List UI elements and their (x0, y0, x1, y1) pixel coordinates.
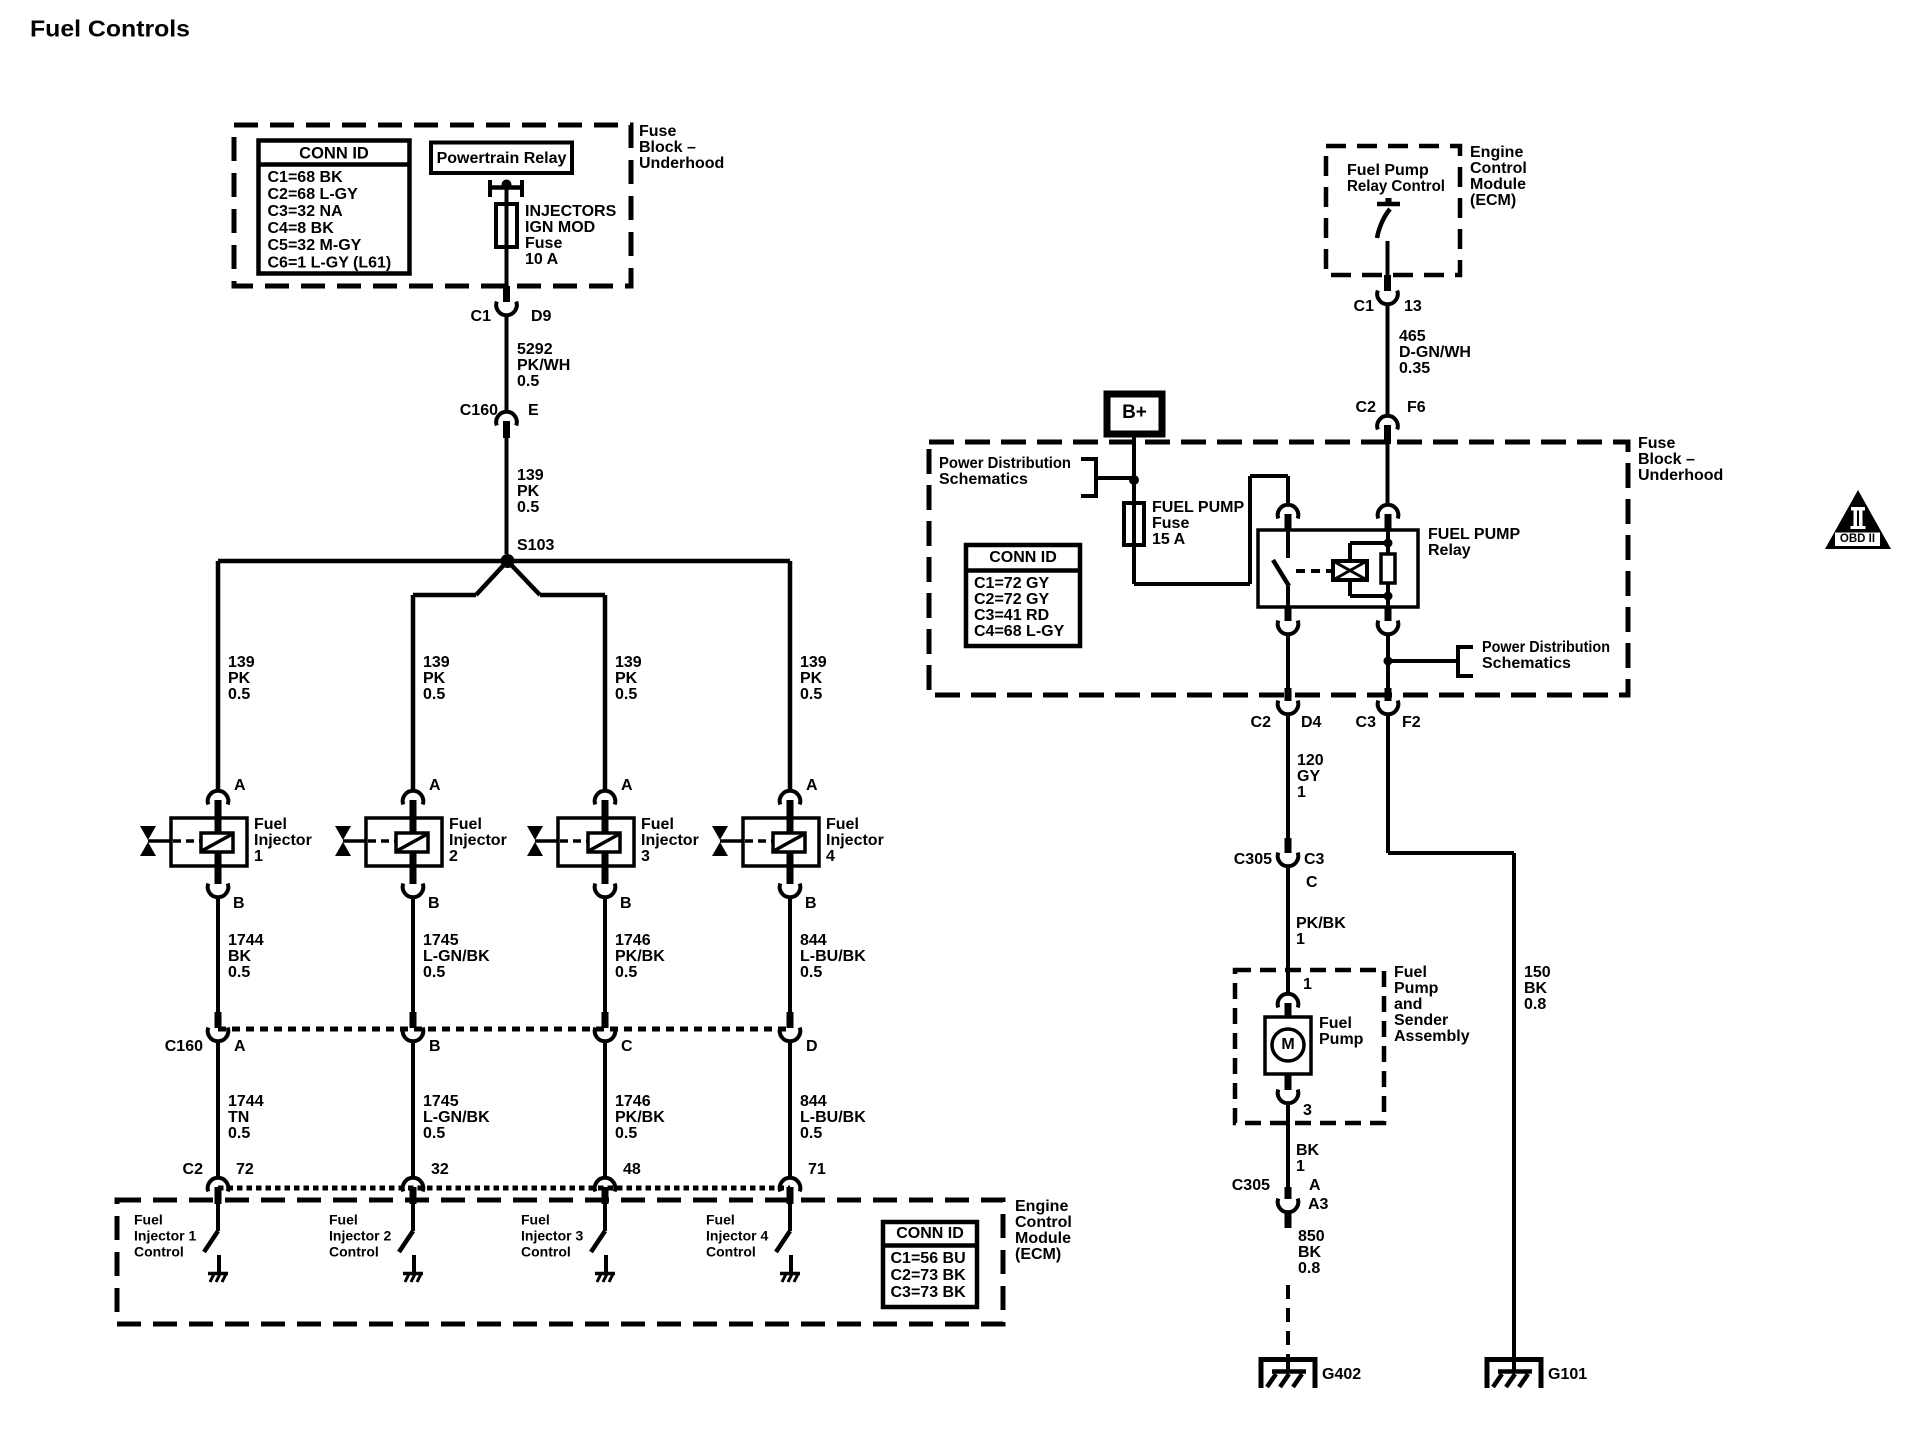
svg-text:Fuel Controls: Fuel Controls (30, 15, 190, 41)
svg-text:Pump: Pump (1319, 1031, 1364, 1048)
svg-text:Fuse: Fuse (1638, 435, 1675, 452)
svg-text:0.5: 0.5 (228, 686, 250, 703)
svg-text:Underhood: Underhood (1638, 467, 1723, 484)
svg-text:Control: Control (706, 1243, 756, 1259)
svg-text:C: C (1306, 874, 1318, 891)
svg-text:L-BU/BK: L-BU/BK (800, 1109, 866, 1126)
svg-text:3: 3 (1303, 1102, 1312, 1119)
svg-text:CONN ID: CONN ID (299, 145, 369, 163)
svg-text:Power Distribution: Power Distribution (1482, 639, 1610, 656)
svg-text:1744: 1744 (228, 1093, 264, 1110)
svg-text:5292: 5292 (517, 341, 553, 358)
svg-text:Control: Control (521, 1243, 571, 1259)
svg-text:B: B (429, 1038, 441, 1055)
svg-text:C1=56 BU: C1=56 BU (891, 1250, 966, 1267)
svg-text:844: 844 (800, 932, 827, 949)
svg-text:D: D (806, 1038, 818, 1055)
svg-text:0.5: 0.5 (228, 964, 250, 981)
svg-text:Block –: Block – (1638, 451, 1695, 468)
svg-text:A: A (1309, 1177, 1321, 1194)
svg-text:PK/WH: PK/WH (517, 357, 570, 374)
svg-text:Power Distribution: Power Distribution (939, 455, 1071, 472)
svg-text:B: B (805, 895, 817, 912)
svg-text:Module: Module (1015, 1230, 1071, 1247)
svg-text:120: 120 (1297, 752, 1324, 769)
svg-text:Injector 4: Injector 4 (706, 1227, 768, 1243)
svg-text:139: 139 (517, 467, 544, 484)
svg-text:Injector: Injector (254, 832, 312, 849)
svg-text:1: 1 (1296, 931, 1305, 948)
svg-text:0.5: 0.5 (800, 1125, 822, 1142)
svg-text:(ECM): (ECM) (1470, 192, 1516, 209)
svg-text:32: 32 (431, 1161, 449, 1178)
svg-text:Fuel: Fuel (329, 1211, 358, 1227)
svg-text:Fuse: Fuse (639, 123, 676, 140)
svg-text:D9: D9 (531, 308, 552, 325)
svg-text:Fuel: Fuel (1394, 964, 1427, 981)
svg-text:C1: C1 (1354, 298, 1375, 315)
svg-text:and: and (1394, 996, 1422, 1013)
svg-text:F2: F2 (1402, 714, 1421, 731)
svg-text:TN: TN (228, 1109, 249, 1126)
svg-text:1: 1 (254, 848, 263, 865)
svg-text:BK: BK (1524, 980, 1548, 997)
svg-text:Fuel: Fuel (449, 816, 482, 833)
svg-text:C2: C2 (1356, 399, 1377, 416)
svg-text:Relay Control: Relay Control (1347, 178, 1445, 195)
svg-text:C4=68 L-GY: C4=68 L-GY (974, 623, 1065, 640)
svg-text:A3: A3 (1308, 1196, 1329, 1213)
svg-text:(ECM): (ECM) (1015, 1246, 1061, 1263)
svg-text:Fuel: Fuel (521, 1211, 550, 1227)
svg-text:Control: Control (1015, 1214, 1072, 1231)
svg-text:15 A: 15 A (1152, 531, 1186, 548)
svg-text:PK/BK: PK/BK (615, 948, 665, 965)
svg-text:B: B (428, 895, 440, 912)
svg-text:Fuel: Fuel (134, 1211, 163, 1227)
svg-text:0.5: 0.5 (615, 686, 637, 703)
svg-text:Fuel: Fuel (641, 816, 674, 833)
svg-text:3: 3 (641, 848, 650, 865)
svg-text:844: 844 (800, 1093, 827, 1110)
svg-text:PK: PK (423, 670, 446, 687)
svg-text:PK/BK: PK/BK (615, 1109, 665, 1126)
svg-text:A: A (234, 777, 246, 794)
svg-text:S103: S103 (517, 537, 554, 554)
svg-text:Fuel: Fuel (826, 816, 859, 833)
svg-text:Fuse: Fuse (525, 235, 562, 252)
svg-text:Fuel: Fuel (1319, 1015, 1352, 1032)
svg-text:B: B (620, 895, 632, 912)
svg-text:4: 4 (826, 848, 835, 865)
svg-text:C2=73 BK: C2=73 BK (891, 1267, 967, 1284)
svg-text:Assembly: Assembly (1394, 1028, 1470, 1045)
svg-text:C160: C160 (165, 1038, 203, 1055)
svg-text:Injector: Injector (826, 832, 884, 849)
svg-text:139: 139 (615, 654, 642, 671)
svg-text:1: 1 (1296, 1158, 1305, 1175)
svg-text:A: A (234, 1038, 246, 1055)
svg-text:C2=72 GY: C2=72 GY (974, 591, 1049, 608)
svg-text:Injector 2: Injector 2 (329, 1227, 391, 1243)
svg-text:0.5: 0.5 (615, 1125, 637, 1142)
svg-text:48: 48 (623, 1161, 641, 1178)
svg-text:71: 71 (808, 1161, 826, 1178)
svg-text:C3=32 NA: C3=32 NA (268, 203, 344, 220)
svg-text:PK: PK (615, 670, 638, 687)
svg-text:C3=73 BK: C3=73 BK (891, 1284, 967, 1301)
svg-text:D4: D4 (1301, 714, 1322, 731)
svg-text:Engine: Engine (1015, 1198, 1068, 1215)
svg-text:1744: 1744 (228, 932, 264, 949)
svg-text:B: B (233, 895, 245, 912)
svg-text:0.5: 0.5 (800, 686, 822, 703)
svg-text:Control: Control (134, 1243, 184, 1259)
svg-text:F6: F6 (1407, 399, 1426, 416)
svg-text:1745: 1745 (423, 1093, 459, 1110)
svg-text:C2=68 L-GY: C2=68 L-GY (268, 186, 359, 203)
svg-text:D-GN/WH: D-GN/WH (1399, 344, 1471, 361)
svg-text:L-GN/BK: L-GN/BK (423, 948, 490, 965)
svg-text:0.5: 0.5 (423, 686, 445, 703)
svg-text:C1: C1 (471, 308, 492, 325)
svg-text:0.5: 0.5 (228, 1125, 250, 1142)
svg-text:INJECTORS: INJECTORS (525, 203, 617, 220)
svg-text:Injector 3: Injector 3 (521, 1227, 583, 1243)
svg-text:A: A (806, 777, 818, 794)
svg-text:Sender: Sender (1394, 1012, 1448, 1029)
svg-text:G101: G101 (1548, 1366, 1587, 1383)
svg-text:Pump: Pump (1394, 980, 1439, 997)
svg-text:13: 13 (1404, 298, 1422, 315)
svg-text:Schematics: Schematics (939, 471, 1028, 488)
svg-text:A: A (621, 777, 633, 794)
svg-text:Schematics: Schematics (1482, 655, 1571, 672)
svg-text:150: 150 (1524, 964, 1551, 981)
svg-text:G402: G402 (1322, 1366, 1361, 1383)
svg-text:CONN ID: CONN ID (989, 549, 1057, 566)
svg-text:Injector: Injector (449, 832, 507, 849)
svg-text:Injector 1: Injector 1 (134, 1227, 196, 1243)
svg-text:PK/BK: PK/BK (1296, 915, 1346, 932)
svg-text:C305: C305 (1234, 851, 1272, 868)
svg-text:0.8: 0.8 (1298, 1260, 1320, 1277)
svg-text:Injector: Injector (641, 832, 699, 849)
svg-text:C3=41 RD: C3=41 RD (974, 607, 1049, 624)
svg-text:1745: 1745 (423, 932, 459, 949)
svg-text:Fuel: Fuel (706, 1211, 735, 1227)
svg-text:C4=8 BK: C4=8 BK (268, 220, 335, 237)
svg-text:PK: PK (517, 483, 540, 500)
svg-text:850: 850 (1298, 1228, 1325, 1245)
svg-text:E: E (528, 402, 539, 419)
svg-text:Fuel Pump: Fuel Pump (1347, 162, 1429, 179)
svg-text:0.5: 0.5 (423, 1125, 445, 1142)
svg-text:C1=72 GY: C1=72 GY (974, 575, 1049, 592)
svg-text:Relay: Relay (1428, 542, 1471, 559)
svg-text:C160: C160 (460, 402, 498, 419)
svg-text:0.8: 0.8 (1524, 996, 1546, 1013)
svg-text:C5=32 M-GY: C5=32 M-GY (268, 237, 362, 254)
svg-text:Powertrain Relay: Powertrain Relay (437, 150, 567, 167)
svg-text:Fuse: Fuse (1152, 515, 1189, 532)
svg-text:B+: B+ (1122, 402, 1147, 423)
svg-text:M: M (1281, 1036, 1294, 1053)
svg-text:1746: 1746 (615, 932, 651, 949)
svg-text:PK: PK (228, 670, 251, 687)
svg-text:0.5: 0.5 (800, 964, 822, 981)
svg-text:C6=1 L-GY (L61): C6=1 L-GY (L61) (268, 254, 392, 271)
svg-text:Engine: Engine (1470, 144, 1523, 161)
svg-text:72: 72 (236, 1161, 254, 1178)
svg-text:C2: C2 (183, 1161, 204, 1178)
svg-text:0.5: 0.5 (615, 964, 637, 981)
svg-text:465: 465 (1399, 328, 1426, 345)
svg-text:OBD II: OBD II (1840, 533, 1875, 545)
svg-text:Underhood: Underhood (639, 155, 724, 172)
svg-text:C3: C3 (1356, 714, 1377, 731)
svg-text:Control: Control (329, 1243, 379, 1259)
svg-text:0.5: 0.5 (517, 373, 539, 390)
svg-text:1746: 1746 (615, 1093, 651, 1110)
svg-text:L-GN/BK: L-GN/BK (423, 1109, 490, 1126)
svg-text:L-BU/BK: L-BU/BK (800, 948, 866, 965)
svg-text:0.5: 0.5 (517, 499, 539, 516)
svg-text:139: 139 (800, 654, 827, 671)
svg-text:139: 139 (228, 654, 255, 671)
svg-text:1: 1 (1303, 976, 1312, 993)
svg-text:A: A (429, 777, 441, 794)
svg-text:Control: Control (1470, 160, 1527, 177)
svg-text:139: 139 (423, 654, 450, 671)
svg-text:BK: BK (228, 948, 252, 965)
svg-text:2: 2 (449, 848, 458, 865)
svg-text:Module: Module (1470, 176, 1526, 193)
svg-text:C305: C305 (1232, 1177, 1270, 1194)
svg-text:FUEL PUMP: FUEL PUMP (1428, 526, 1520, 543)
svg-text:IGN MOD: IGN MOD (525, 219, 595, 236)
svg-text:10 A: 10 A (525, 251, 559, 268)
svg-text:1: 1 (1297, 784, 1306, 801)
svg-text:GY: GY (1297, 768, 1320, 785)
svg-text:CONN ID: CONN ID (896, 1225, 964, 1242)
svg-text:PK: PK (800, 670, 823, 687)
svg-text:Fuel: Fuel (254, 816, 287, 833)
svg-text:BK: BK (1298, 1244, 1322, 1261)
svg-text:0.5: 0.5 (423, 964, 445, 981)
svg-text:C3: C3 (1304, 851, 1325, 868)
svg-text:BK: BK (1296, 1142, 1320, 1159)
svg-text:Block –: Block – (639, 139, 696, 156)
svg-text:C2: C2 (1251, 714, 1272, 731)
svg-text:FUEL PUMP: FUEL PUMP (1152, 499, 1244, 516)
svg-text:0.35: 0.35 (1399, 360, 1430, 377)
svg-text:C1=68 BK: C1=68 BK (268, 169, 344, 186)
svg-text:C: C (621, 1038, 633, 1055)
